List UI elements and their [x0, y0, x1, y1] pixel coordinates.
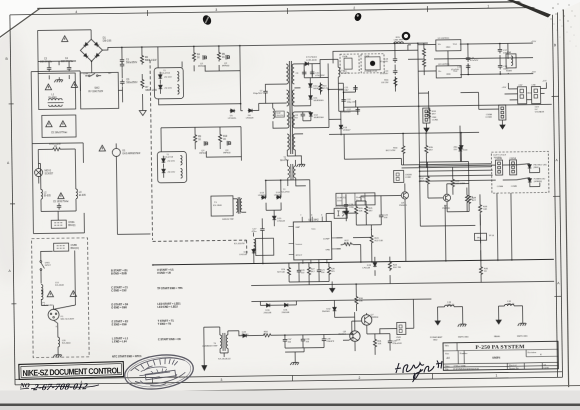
- svg-text:TNR-10: TNR-10: [446, 304, 454, 306]
- frame border right outer: [557, 7, 562, 377]
- svg-text:COMB: COMB: [511, 186, 518, 188]
- wire l50: [438, 307, 463, 322]
- ground: [290, 360, 299, 365]
- svg-text:Isense: Isense: [296, 244, 303, 246]
- wire bottom row: [289, 262, 329, 285]
- svg-text:EI-005: EI-005: [44, 195, 52, 197]
- svg-text:DB-106: DB-106: [103, 39, 112, 42]
- wire converter cell top rails: [158, 46, 241, 112]
- wire cn7 leads: [460, 82, 546, 109]
- capacitor C19: [344, 202, 348, 208]
- capacitor C3: [47, 65, 51, 71]
- inductor L20: [58, 337, 60, 347]
- svg-text:3842: 3842: [313, 219, 319, 222]
- bottom scanner bands: [0, 391, 580, 404]
- svg-text:C5 103/275Vac: C5 103/275Vac: [53, 201, 70, 203]
- svg-text:CN29A: CN29A: [509, 157, 516, 160]
- svg-text:DRIVE TRF: DRIVE TRF: [222, 219, 234, 221]
- line filter L1: [38, 73, 75, 110]
- svg-text:2: 2: [353, 6, 355, 10]
- resistor R36: [451, 178, 454, 189]
- top-left corner outside page (white): [0, 0, 41, 41]
- capacitor C11: [353, 85, 357, 91]
- svg-text:Sheet of: Sheet of: [509, 364, 517, 367]
- connector CN5B: [54, 243, 69, 251]
- svg-text:GND: GND: [433, 340, 438, 342]
- svg-text:U1 LM7815: U1 LM7815: [438, 38, 450, 40]
- svg-text:CN5B: CN5B: [71, 245, 78, 247]
- svg-text:10K: 10K: [345, 243, 349, 245]
- ink ring mark: [403, 33, 409, 39]
- warning triangle: [45, 84, 51, 90]
- diode D7: [304, 62, 309, 66]
- connector CN2B dashed box: [361, 54, 384, 73]
- frame border left: [10, 15, 15, 385]
- wire gnd rail y61: [408, 42, 533, 76]
- capacitor C13: [393, 56, 397, 62]
- svg-text:680K 1/2W: 680K 1/2W: [145, 60, 157, 62]
- ground: [54, 77, 63, 82]
- wire bus y108: [344, 104, 552, 107]
- wire dashed corner: [153, 240, 247, 255]
- svg-text:COM2: COM2: [405, 177, 412, 179]
- wire comp net: [336, 229, 390, 285]
- svg-text:10K: 10K: [483, 209, 487, 211]
- inductor L51: [504, 304, 514, 306]
- diode D5: [230, 109, 235, 113]
- svg-text:IRF840: IRF840: [222, 65, 230, 67]
- resistor R50: [262, 334, 273, 337]
- svg-text:470u/16V: 470u/16V: [341, 112, 351, 114]
- svg-text:C5 2Mu/275Vac: C5 2Mu/275Vac: [51, 132, 68, 134]
- svg-text:LF4148: LF4148: [274, 195, 282, 197]
- svg-text:KX-4T19: KX-4T19: [164, 157, 173, 159]
- svg-text:R27 10K: R27 10K: [277, 272, 285, 274]
- svg-text:R10: R10: [223, 136, 228, 138]
- mosfet Q4: [227, 141, 230, 146]
- oval inspection stamp: [123, 351, 196, 393]
- ground: [53, 352, 62, 357]
- wire secondary bottom: [302, 77, 344, 121]
- svg-text:EI-005: EI-005: [79, 195, 87, 197]
- diode D10: [309, 83, 313, 88]
- svg-text:CN5A: CN5A: [68, 221, 75, 224]
- svg-text:1K: 1K: [197, 57, 200, 59]
- bottom row C21: [317, 268, 321, 274]
- capacitor C4: [67, 65, 71, 71]
- svg-text:560u/250V: 560u/250V: [126, 62, 138, 64]
- svg-text:COW: COW: [543, 367, 549, 369]
- wire r36 net: [453, 167, 468, 212]
- svg-text:MUR3040: MUR3040: [314, 100, 325, 102]
- svg-text:2N4148: 2N4148: [264, 312, 272, 314]
- svg-text:MIC SOCKET: MIC SOCKET: [61, 319, 75, 321]
- svg-text:10u: 10u: [356, 200, 359, 202]
- svg-text:KX-4107W: KX-4107W: [234, 243, 246, 245]
- svg-text:VOLTAGE: VOLTAGE: [535, 111, 545, 114]
- diode D31: [283, 303, 288, 307]
- ground: [296, 162, 305, 167]
- bottom row R28: [327, 265, 330, 276]
- transistor Q4b: [443, 194, 450, 201]
- svg-text:Vin: Vin: [438, 71, 441, 73]
- input dashed enclosure: [32, 238, 90, 358]
- svg-text:LF4148: LF4148: [258, 195, 266, 197]
- resistor R1: [51, 148, 62, 151]
- switch SW1: [40, 251, 76, 306]
- LED power: [528, 178, 532, 183]
- optocoupler U5: [334, 208, 347, 218]
- frame border right inner: [552, 7, 557, 377]
- wire z30: [403, 133, 461, 168]
- capacitor C6: [120, 62, 124, 68]
- svg-text:10K: 10K: [378, 343, 382, 345]
- svg-text:MOV1: MOV1: [45, 170, 52, 172]
- svg-text:1K: 1K: [198, 139, 201, 141]
- current transformer T5: [204, 327, 239, 357]
- top strip above page edge: [36, 0, 580, 8]
- svg-text:ZD 15V: ZD 15V: [168, 172, 176, 174]
- inductor L5A: [506, 54, 516, 68]
- svg-text:COMA: COMA: [497, 185, 504, 188]
- svg-text:(GREEN): (GREEN): [534, 181, 542, 183]
- svg-text:KX-18-08-02: KX-18-08-02: [218, 358, 231, 360]
- mic socket P1: [48, 305, 76, 320]
- mosfet Q1: [203, 55, 206, 60]
- wire lower cell rails: [161, 127, 241, 162]
- svg-text:LF4148: LF4148: [277, 221, 285, 223]
- svg-text:CN2A: CN2A: [342, 55, 348, 58]
- svg-text:-15V: -15V: [531, 72, 536, 74]
- svg-text:KX-4040: KX-4040: [62, 343, 71, 345]
- svg-text:47u/50V: 47u/50V: [470, 60, 479, 62]
- svg-text:10uH(T2): 10uH(T2): [337, 197, 346, 199]
- connector CN29A: [509, 160, 516, 175]
- wire bus y285: [251, 281, 554, 285]
- frame border top: [10, 7, 557, 15]
- resistor R30b: [355, 295, 358, 306]
- connector CN31: [397, 322, 406, 334]
- svg-text:KX-4753: KX-4753: [281, 192, 290, 194]
- diode D14b: [276, 195, 281, 199]
- inductor LNK: [394, 42, 404, 44]
- svg-text:SMPS GND: SMPS GND: [517, 336, 528, 338]
- capacitor C9: [302, 70, 306, 76]
- resistor R21: [364, 205, 367, 216]
- thermistor TH1: [474, 233, 486, 240]
- wire bus y135: [329, 132, 479, 134]
- connector CN4: [423, 108, 430, 123]
- svg-text:IRF840: IRF840: [198, 66, 206, 68]
- connector CN20B: [394, 170, 404, 182]
- capacitor C16: [466, 63, 470, 69]
- svg-text:2N3904: 2N3904: [338, 334, 346, 336]
- svg-text:CONNECTOR: CONNECTOR: [364, 71, 377, 73]
- svg-text:D7 LF4001: D7 LF4001: [306, 57, 318, 59]
- svg-text:COM2: COM2: [486, 117, 493, 119]
- svg-text:51K 1W: 51K 1W: [393, 267, 402, 269]
- wire l51: [499, 306, 523, 321]
- capacitor C1: [120, 57, 124, 63]
- svg-text:BNC(I): BNC(I): [68, 225, 75, 227]
- svg-text:File:: File:: [445, 369, 450, 371]
- svg-text:LF4148: LF4148: [239, 254, 247, 256]
- main transformer T2: [286, 61, 295, 154]
- wire g1 to divider: [117, 233, 150, 235]
- svg-text:LF4008: LF4008: [246, 117, 254, 119]
- diode D15: [272, 215, 276, 220]
- resistor R38: [467, 194, 470, 205]
- svg-text:2N4148: 2N4148: [322, 311, 330, 313]
- svg-text:VCC: VCC: [311, 229, 316, 231]
- svg-text:6K2 1/2W: 6K2 1/2W: [386, 150, 397, 152]
- wire bridge to relay: [80, 61, 122, 91]
- resistor R5: [217, 51, 220, 62]
- zener ZD1: [158, 74, 162, 79]
- svg-text:2: 2: [358, 376, 360, 380]
- svg-text:SCK057: SCK057: [45, 173, 54, 175]
- inductor L2: [41, 189, 43, 199]
- capacitor C8: [301, 112, 305, 118]
- resistor R18: [427, 108, 430, 119]
- mosfet Q3: [204, 141, 207, 146]
- capacitor box C5: [42, 115, 76, 137]
- wire diode branch: [310, 78, 320, 106]
- ground: [424, 125, 429, 132]
- capacitor C14: [393, 68, 397, 74]
- wire relay column: [122, 47, 143, 108]
- connector CN8: [531, 86, 540, 103]
- svg-text:2N3906: 2N3906: [442, 208, 450, 210]
- ground: [500, 122, 505, 129]
- diode D16: [252, 248, 256, 253]
- inductor L5: [338, 67, 340, 77]
- svg-text:3: 3: [215, 8, 217, 12]
- svg-text:Date:: Date:: [445, 366, 450, 368]
- svg-text:+15V: +15V: [501, 87, 506, 89]
- aux winding T2B: [287, 160, 305, 186]
- connector CN2A dashed box: [340, 54, 359, 73]
- svg-text:GAP: GAP: [295, 226, 300, 229]
- duty cycle dashed box: [491, 151, 549, 193]
- ground: [344, 208, 349, 215]
- warning triangle: [47, 291, 53, 297]
- frame border bottom inner: [15, 372, 562, 380]
- transistor Q3b: [401, 192, 408, 199]
- svg-text:MUR1560: MUR1560: [314, 117, 325, 119]
- wire opto net: [326, 195, 401, 230]
- wire duty box nets: [418, 42, 540, 189]
- wire current sense rail: [204, 325, 352, 357]
- left mains enclosure: [32, 143, 84, 234]
- net list text block: [111, 269, 184, 359]
- svg-text:47u/50V: 47u/50V: [380, 73, 389, 75]
- svg-text:LW 2W: LW 2W: [381, 82, 389, 84]
- diode D11: [309, 95, 313, 100]
- svg-text:150p/1KV: 150p/1KV: [253, 93, 263, 95]
- svg-text:LF4148: LF4148: [363, 267, 371, 269]
- svg-text:3: 3: [220, 378, 222, 382]
- svg-text:B END = B3B: B END = B3B: [111, 272, 127, 275]
- svg-text:-15V: -15V: [542, 80, 547, 82]
- svg-text:LF4007: LF4007: [343, 130, 351, 132]
- drive transformer T3: [211, 196, 233, 216]
- warning triangle: [58, 193, 64, 199]
- svg-text:100p: 100p: [349, 207, 355, 209]
- diode D13: [261, 196, 266, 200]
- resistor R35: [425, 144, 428, 155]
- wire y68: [31, 71, 81, 144]
- ground: [139, 108, 146, 116]
- varistor MOV1: [34, 163, 42, 183]
- resistor R4: [192, 51, 195, 62]
- warning triangle: [99, 145, 105, 151]
- svg-text:U2 LM7915: U2 LM7915: [438, 64, 450, 66]
- inductor L3: [76, 189, 78, 199]
- resistor R17: [422, 47, 425, 58]
- svg-text:IRF840: IRF840: [223, 152, 231, 154]
- svg-text:SW2: SW2: [94, 88, 100, 90]
- warning triangle: [71, 82, 77, 88]
- svg-text:COMP: COMP: [323, 238, 330, 240]
- diode D32: [333, 306, 337, 311]
- svg-text:U END = U9: U END = U9: [157, 272, 171, 275]
- capacitor C10: [310, 70, 314, 76]
- resistor R34b: [402, 144, 405, 155]
- svg-text:BNC(O): BNC(O): [71, 248, 79, 250]
- resistor R10: [218, 133, 221, 144]
- wire duty feeders: [344, 132, 491, 169]
- capacitor C17b: [260, 226, 264, 232]
- svg-text:COM1: COM1: [432, 120, 439, 122]
- svg-text:LF1601L: LF1601L: [228, 118, 237, 120]
- diode D6: [248, 109, 253, 113]
- wire secondary rails: [294, 50, 419, 134]
- connector CN7: [517, 87, 526, 104]
- top-right page corner cut: dark diagonal and speckles: [507, 0, 580, 46]
- warning triangle: [61, 36, 67, 42]
- NIKE-SZ document control stamp: [19, 362, 124, 380]
- svg-text:1: 1: [487, 4, 489, 8]
- svg-text:4: 4: [75, 10, 77, 14]
- svg-text:R22 10K: R22 10K: [375, 240, 384, 242]
- connector CN29B: [495, 160, 502, 175]
- svg-text:CN2B: CN2B: [364, 56, 370, 58]
- svg-text:Vin: Vin: [438, 44, 441, 46]
- svg-text:DPDT: DPDT: [45, 265, 52, 267]
- svg-text:100u: 100u: [337, 200, 341, 202]
- zener ZD4: [162, 168, 166, 173]
- svg-text:47u/50V: 47u/50V: [451, 69, 460, 71]
- resistor R9: [193, 133, 196, 144]
- ground smps2: [518, 321, 527, 326]
- resistor R24: [388, 261, 391, 272]
- resistor R7: [141, 78, 144, 89]
- svg-text:Vout: Vout: [453, 43, 457, 46]
- svg-text:SMPS GND: SMPS GND: [458, 337, 469, 339]
- svg-text:KX-1948: KX-1948: [213, 205, 222, 207]
- resistor R2: [140, 54, 143, 65]
- wire center link: [229, 84, 287, 129]
- zener ZD2: [159, 84, 163, 89]
- svg-text:TP 5K: TP 5K: [489, 235, 495, 237]
- resistor R41: [465, 194, 468, 205]
- svg-text:L4 EI-4040: L4 EI-4040: [306, 60, 318, 62]
- svg-text:L END = L94: L END = L94: [112, 340, 127, 343]
- svg-text:C START END = C8: C START END = C8: [158, 338, 181, 341]
- wire q5 q6: [260, 284, 380, 353]
- warning triangle: [70, 291, 76, 297]
- svg-text:(RED): (RED): [534, 167, 540, 169]
- snubber coil SLM: [273, 109, 275, 119]
- svg-text:CURRENT TRF: CURRENT TRF: [202, 346, 218, 348]
- inductor pack box: [336, 193, 375, 206]
- zener Z30: [459, 145, 463, 150]
- resistor R16: [394, 76, 397, 87]
- svg-text:COM: COM: [83, 73, 88, 75]
- wire mains lower: [38, 149, 76, 221]
- svg-text:17-Dec-1998: 17-Dec-1998: [453, 365, 466, 367]
- page bottom edge: [0, 385, 580, 393]
- handwritten document number: [19, 381, 99, 394]
- resistor R23: [370, 234, 373, 245]
- svg-text:NO: NO: [108, 73, 111, 75]
- diode D28: [242, 334, 247, 338]
- wire control area verticals: [253, 177, 512, 264]
- transistor Q8: [350, 331, 361, 342]
- svg-text:2N4148: 2N4148: [282, 312, 290, 314]
- corner dark diagonal: [507, 0, 551, 18]
- svg-text:VFB: VFB: [325, 249, 330, 251]
- svg-text:RT/CT: RT/CT: [296, 255, 303, 257]
- svg-text:2200PF: 2200PF: [326, 341, 334, 343]
- resistor R39: [478, 203, 481, 214]
- capacitor C37: [283, 337, 287, 343]
- svg-text:222 2KV/1u: 222 2KV/1u: [61, 61, 74, 63]
- svg-text:150-2V-1: 150-2V-1: [276, 115, 285, 117]
- capacitor C39: [388, 339, 392, 345]
- capacitor C22: [341, 97, 345, 103]
- svg-text:Revision: Revision: [528, 351, 537, 354]
- wire left caps: [38, 61, 76, 80]
- frame border bottom outer: [15, 377, 562, 385]
- svg-text:803M: 803M: [506, 70, 512, 72]
- svg-text:10K: 10K: [359, 211, 363, 213]
- connector CN5A: [51, 220, 66, 228]
- svg-text:ZD 15V: ZD 15V: [167, 161, 175, 163]
- svg-text:C END = C92: C END = C92: [111, 289, 127, 292]
- svg-text:GND: GND: [446, 47, 451, 49]
- svg-text:MIC: MIC: [343, 71, 347, 73]
- resistor R20: [354, 205, 357, 216]
- svg-text:LED END = LED2: LED END = LED2: [157, 306, 178, 309]
- regulator U2 LM7915: [436, 66, 461, 78]
- punch hole mark left: [201, 14, 213, 26]
- svg-text:NTC START END = NTC1: NTC START END = NTC1: [112, 355, 142, 358]
- svg-text:2N3904: 2N3904: [371, 317, 379, 319]
- aux transformer T1B: [157, 151, 186, 182]
- bottom row R27: [307, 266, 310, 277]
- handwritten signature: [395, 361, 442, 383]
- bottom row C20: [297, 268, 301, 274]
- svg-text:ZD 15V: ZD 15V: [164, 88, 172, 90]
- warning triangle: [46, 121, 52, 127]
- ground smps1: [458, 322, 467, 327]
- page right edge: [563, 0, 568, 387]
- inductor T4: [256, 238, 274, 255]
- diode D19: [373, 262, 377, 267]
- svg-text:1K: 1K: [222, 57, 225, 59]
